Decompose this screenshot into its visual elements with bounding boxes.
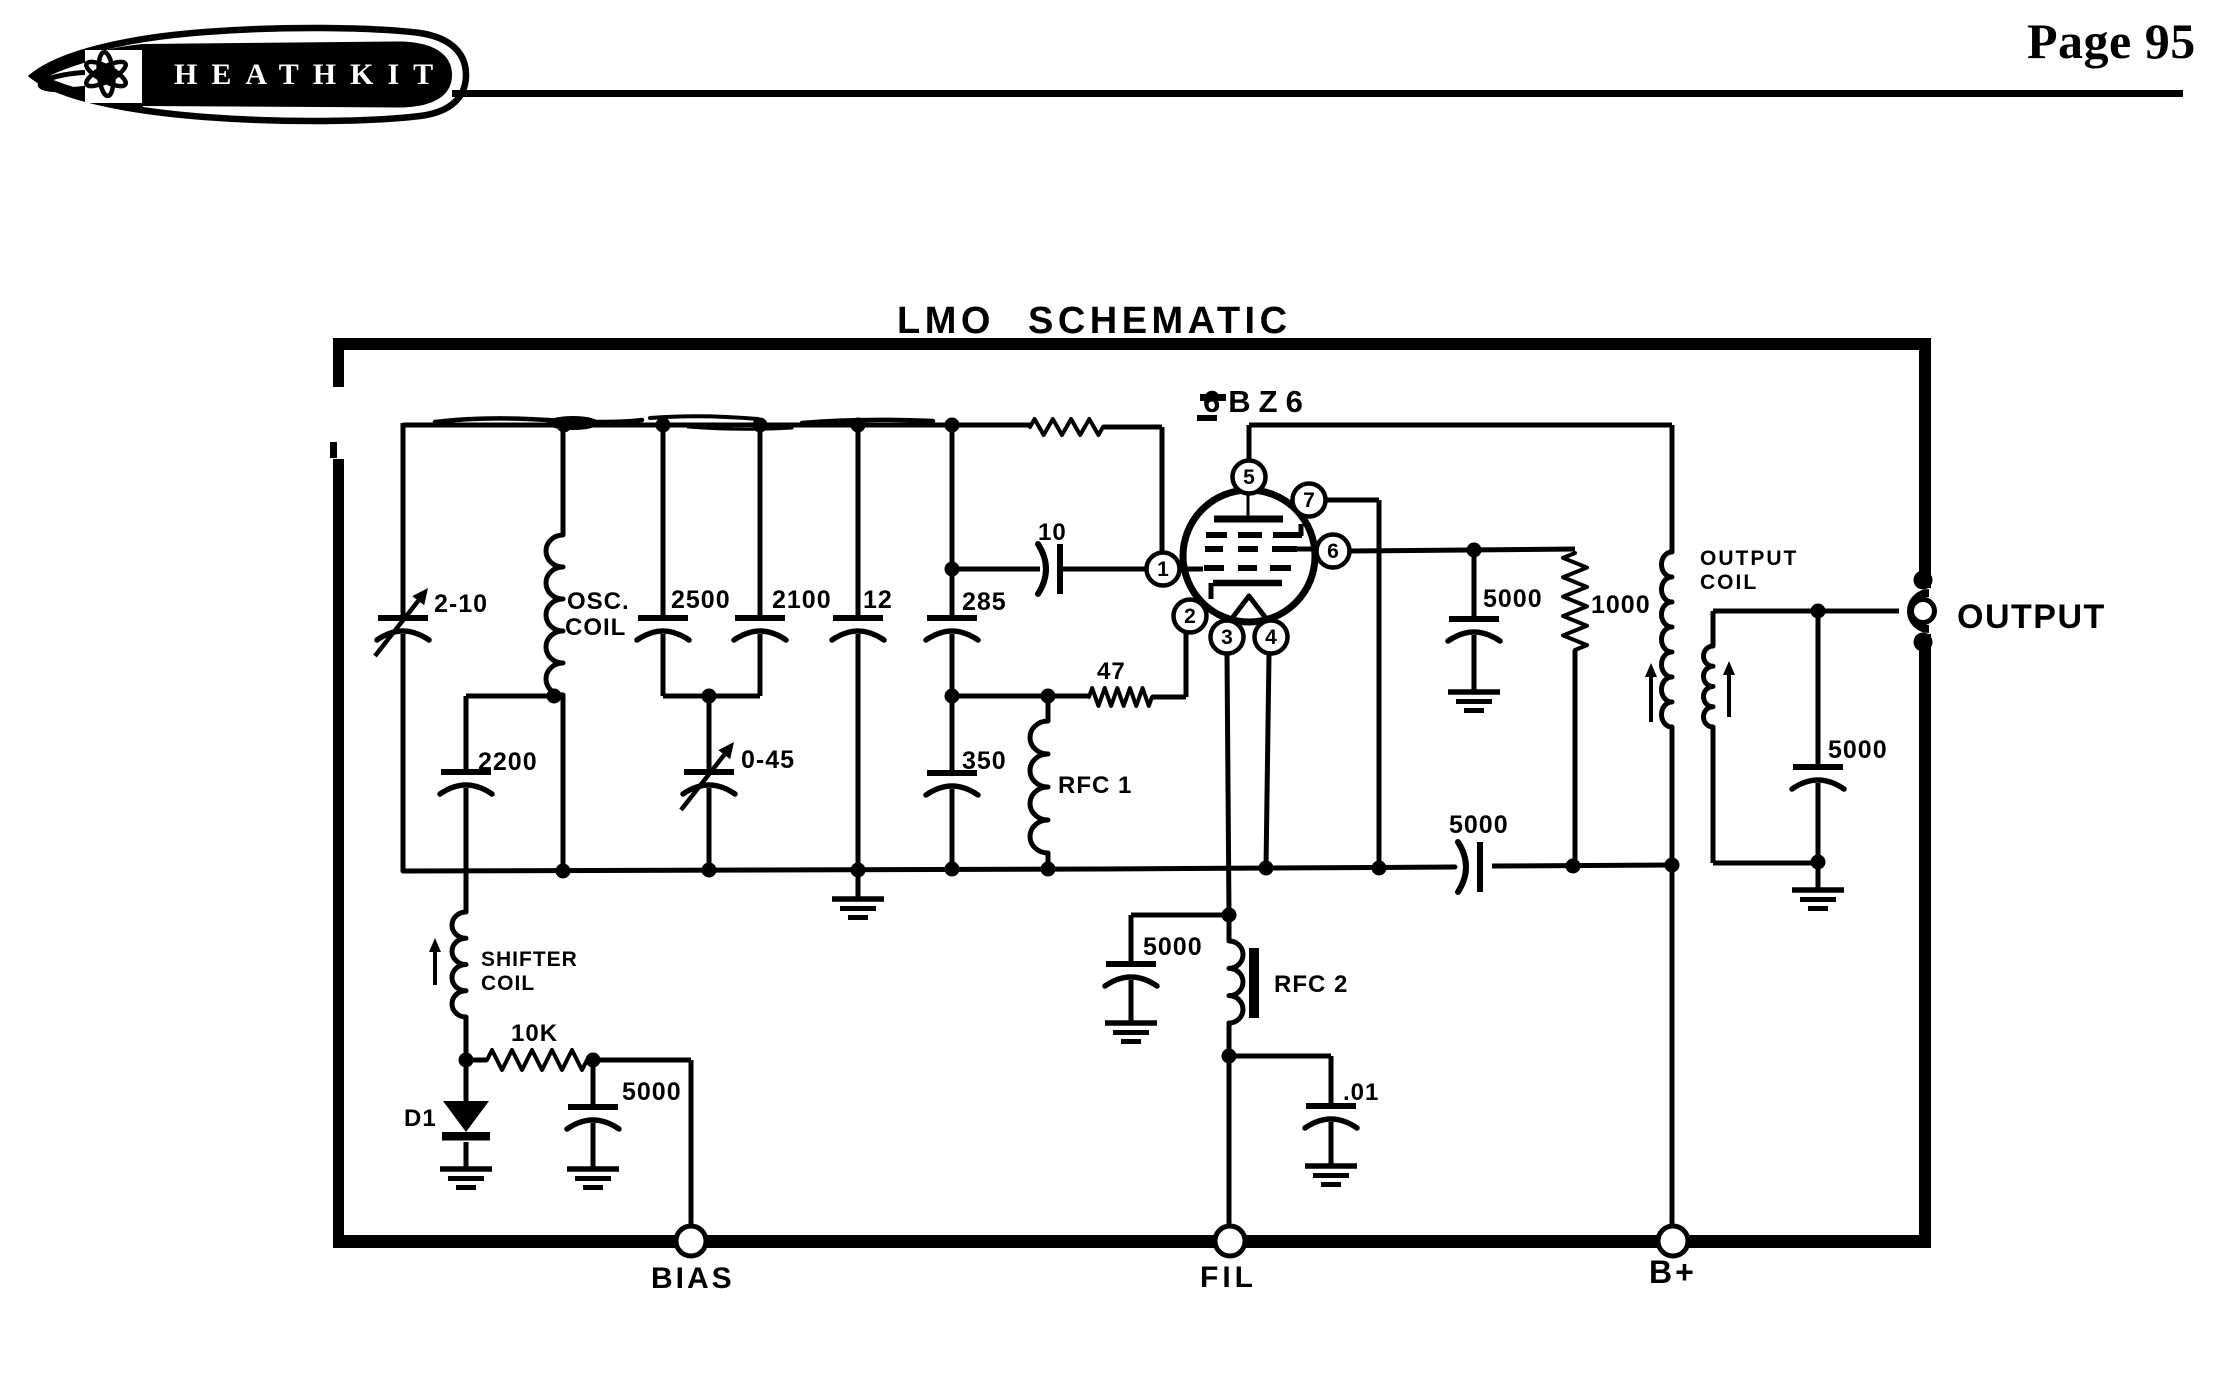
node bbox=[586, 1053, 601, 1068]
wire bbox=[952, 694, 1089, 699]
capacitor 5000 (fil) bbox=[1106, 961, 1156, 967]
svg-text:2200: 2200 bbox=[478, 748, 538, 776]
ground bbox=[567, 1166, 619, 1172]
terminal B+ bbox=[1658, 1226, 1688, 1256]
svg-text:5000: 5000 bbox=[1143, 933, 1203, 961]
wire bbox=[464, 1017, 469, 1060]
capacitor 5000 (plate) bbox=[1449, 616, 1499, 622]
svg-text:COIL: COIL bbox=[1700, 571, 1758, 594]
wire: 2500/2100 join bbox=[663, 694, 760, 699]
capacitor 2500 bbox=[638, 615, 688, 621]
wire: left branch bbox=[401, 423, 406, 616]
wire: B+ bbox=[1670, 865, 1675, 1228]
node bbox=[1665, 858, 1680, 873]
svg-text:6: 6 bbox=[1327, 540, 1339, 563]
svg-text:12: 12 bbox=[863, 586, 893, 614]
inductor RFC 2 bbox=[1227, 915, 1232, 941]
node: top bus / osc coil bbox=[557, 418, 572, 433]
wire: pin 3 (crosses bus) bbox=[1227, 654, 1229, 915]
svg-text:OUTPUT: OUTPUT bbox=[1700, 547, 1798, 570]
wire bbox=[1670, 727, 1675, 868]
wire bbox=[856, 425, 861, 617]
wire bbox=[950, 634, 955, 772]
capacitor .01 bbox=[1306, 1103, 1356, 1109]
wire bbox=[1816, 611, 1821, 766]
wire bbox=[707, 696, 712, 771]
svg-text:HEATHKIT: HEATHKIT bbox=[174, 58, 447, 91]
ground bbox=[832, 896, 884, 902]
ground bbox=[1816, 862, 1821, 888]
node bbox=[1222, 908, 1237, 923]
capacitor 5000 (output) bbox=[1793, 764, 1843, 770]
svg-text:10: 10 bbox=[1038, 519, 1067, 546]
Heathkit logo bbox=[33, 28, 466, 121]
OUTPUT connector bbox=[1899, 587, 1947, 635]
svg-text:3: 3 bbox=[1221, 626, 1233, 649]
node bbox=[702, 689, 717, 704]
svg-text:350: 350 bbox=[962, 747, 1007, 775]
wire bbox=[952, 567, 1040, 572]
svg-text:.01: .01 bbox=[1343, 1079, 1379, 1106]
wire bbox=[1573, 650, 1578, 868]
node bbox=[656, 418, 671, 433]
wire bbox=[661, 634, 666, 696]
svg-text:RFC 2: RFC 2 bbox=[1274, 971, 1348, 998]
wire bbox=[561, 425, 566, 535]
svg-text:285: 285 bbox=[962, 588, 1007, 616]
wire: up to pin 2 bbox=[1152, 695, 1186, 700]
node bbox=[1259, 861, 1274, 876]
wire bbox=[1472, 550, 1477, 618]
svg-text:BIAS: BIAS bbox=[651, 1262, 735, 1295]
wire bbox=[1103, 425, 1162, 430]
svg-text:47: 47 bbox=[1097, 658, 1126, 685]
capacitor 2100 bbox=[735, 615, 785, 621]
node bbox=[1811, 604, 1826, 619]
variable capacitor 0-45 bbox=[684, 769, 734, 775]
svg-text:SHIFTER: SHIFTER bbox=[481, 948, 578, 971]
op-amp substitute: vacuum tube 6BZ6 envelope bbox=[1183, 490, 1315, 622]
pin 3 bbox=[1211, 621, 1244, 654]
node bbox=[1566, 859, 1581, 874]
capacitor 2200 bbox=[441, 769, 491, 775]
pin 5 bbox=[1233, 461, 1266, 494]
node bbox=[556, 864, 571, 879]
svg-text:0-45: 0-45 bbox=[741, 746, 795, 774]
wire bbox=[1131, 913, 1229, 918]
svg-text:OUTPUT: OUTPUT bbox=[1957, 598, 2106, 636]
wire: to BIAS bbox=[587, 1058, 691, 1063]
inductor SHIFTER COIL bbox=[452, 912, 466, 1017]
enclosure border bbox=[333, 338, 1931, 350]
inductor OUTPUT COIL primary bbox=[1662, 552, 1673, 727]
node bbox=[945, 562, 960, 577]
svg-text:FIL: FIL bbox=[1200, 1261, 1257, 1294]
svg-text:4: 4 bbox=[1265, 626, 1277, 649]
svg-text:1: 1 bbox=[1157, 558, 1169, 581]
resistor (top bus, unlabeled) bbox=[1030, 419, 1103, 435]
svg-text:5000: 5000 bbox=[1449, 811, 1509, 839]
capacitor 12 bbox=[833, 615, 883, 621]
capacitor 285 bbox=[927, 615, 977, 621]
wire: secondary bottom bbox=[1711, 727, 1716, 863]
wire bbox=[1472, 635, 1477, 690]
smudge artifacts bbox=[435, 418, 642, 422]
wire: 2200 down to shifter coil (crosses bus) bbox=[464, 788, 469, 912]
tube grids bbox=[1206, 532, 1227, 538]
node bbox=[1467, 543, 1482, 558]
pin 6 bbox=[1317, 535, 1350, 568]
ground bbox=[440, 1166, 492, 1172]
svg-text:RFC 1: RFC 1 bbox=[1058, 772, 1132, 799]
wire bbox=[661, 425, 666, 617]
svg-text:B+: B+ bbox=[1649, 1254, 1697, 1290]
svg-text:2-10: 2-10 bbox=[434, 590, 488, 618]
svg-text:COIL: COIL bbox=[481, 972, 535, 995]
svg-text:5000: 5000 bbox=[622, 1078, 682, 1106]
arrow (primary) bbox=[1649, 672, 1653, 722]
wire bbox=[707, 788, 712, 870]
capacitor 5000 (bias) bbox=[591, 1060, 596, 1106]
wire bbox=[950, 789, 955, 870]
wire: tap to 2200 bbox=[466, 694, 556, 699]
pin 2 bbox=[1174, 600, 1207, 633]
resistor 47 bbox=[1089, 688, 1152, 706]
node bbox=[851, 418, 866, 433]
node bbox=[1041, 689, 1056, 704]
svg-text:OSC.: OSC. bbox=[567, 588, 630, 615]
resistor 1000 bbox=[1563, 553, 1587, 650]
diode D1 bbox=[464, 1060, 469, 1101]
wire: pin 6 bbox=[1350, 549, 1575, 551]
svg-text:5000: 5000 bbox=[1483, 585, 1543, 613]
wire: pin 4 bbox=[1266, 654, 1269, 868]
node bbox=[945, 862, 960, 877]
capacitor 350 bbox=[927, 770, 977, 776]
pin 4 bbox=[1255, 621, 1288, 654]
wire bbox=[950, 425, 955, 617]
svg-text:LMO SCHEMATIC: LMO SCHEMATIC bbox=[897, 300, 1292, 342]
wire bbox=[561, 695, 566, 871]
ground bbox=[1105, 1020, 1157, 1026]
wire bbox=[758, 634, 763, 696]
node bbox=[945, 418, 960, 433]
node bbox=[945, 689, 960, 704]
node bbox=[851, 863, 866, 878]
wire: down to pin 1 bbox=[1160, 427, 1165, 569]
wire bbox=[1227, 1023, 1232, 1226]
capacitor 10 bbox=[1038, 544, 1046, 594]
node bbox=[753, 418, 768, 433]
node bbox=[1372, 861, 1387, 876]
inductor RFC 1 bbox=[1030, 721, 1048, 853]
tube base tip bbox=[1233, 596, 1265, 617]
resistor 10K bbox=[487, 1050, 587, 1070]
node bbox=[702, 863, 717, 878]
node bbox=[459, 1053, 474, 1068]
svg-text:5: 5 bbox=[1243, 466, 1255, 489]
pin 1 bbox=[1147, 553, 1180, 586]
pin 7 bbox=[1293, 484, 1326, 517]
svg-text:Page 95: Page 95 bbox=[2027, 13, 2196, 69]
pin 1 stub bbox=[1180, 567, 1203, 572]
node bbox=[1222, 1049, 1237, 1064]
svg-text:5000: 5000 bbox=[1828, 736, 1888, 764]
svg-text:6BZ6: 6BZ6 bbox=[1203, 384, 1311, 419]
wire: pin 5 riser bbox=[1247, 425, 1252, 460]
capacitor 5000 (series) bbox=[1458, 842, 1466, 892]
variable capacitor 2-10 bbox=[378, 615, 428, 621]
arrow (secondary) bbox=[1727, 670, 1731, 717]
wire bbox=[856, 634, 861, 897]
ground bbox=[1448, 689, 1500, 695]
inductor OSC COIL bbox=[546, 535, 563, 695]
node bbox=[1811, 855, 1826, 870]
terminal BIAS bbox=[676, 1226, 706, 1256]
wire bbox=[758, 425, 763, 617]
tube plate bbox=[1214, 516, 1283, 523]
svg-text:2: 2 bbox=[1184, 605, 1196, 628]
wire: secondary top bbox=[1711, 611, 1716, 646]
svg-text:7: 7 bbox=[1303, 489, 1315, 512]
svg-text:2100: 2100 bbox=[772, 586, 832, 614]
wire: top bus bbox=[403, 423, 1030, 428]
wire: bottom bus bbox=[403, 867, 1455, 871]
node: osc coil tap bbox=[547, 689, 562, 704]
wire bbox=[1060, 567, 1147, 572]
svg-text:10K: 10K bbox=[511, 1020, 558, 1047]
wire bbox=[1046, 853, 1051, 870]
svg-text:1000: 1000 bbox=[1591, 591, 1651, 619]
svg-text:2500: 2500 bbox=[671, 586, 731, 614]
header rule bbox=[452, 90, 2183, 97]
node bbox=[1041, 862, 1056, 877]
terminal FIL bbox=[1215, 1226, 1245, 1256]
inductor output secondary bbox=[1704, 646, 1714, 727]
ground bbox=[1305, 1163, 1357, 1169]
wire: pin 7 bbox=[1326, 498, 1379, 503]
tube cathode bbox=[1213, 580, 1282, 587]
svg-text:COIL: COIL bbox=[565, 614, 626, 641]
arrow bbox=[433, 947, 437, 985]
svg-text:D1: D1 bbox=[404, 1105, 437, 1132]
